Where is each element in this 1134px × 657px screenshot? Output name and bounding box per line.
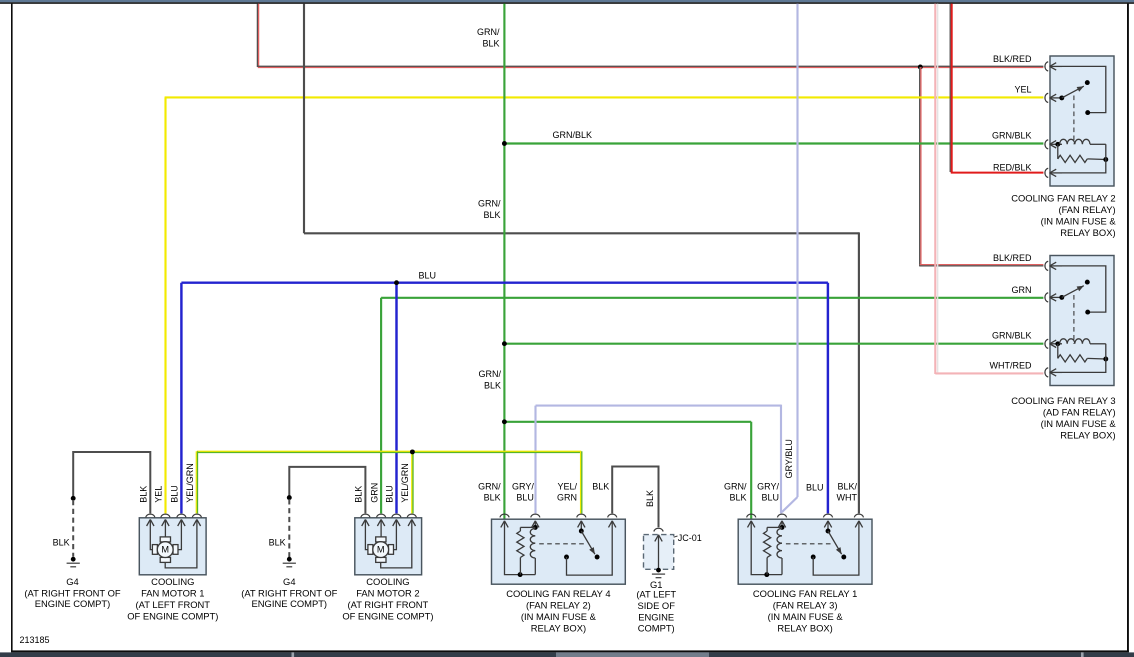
window top bar <box>0 0 1134 2</box>
junction dot BLU <box>394 280 399 285</box>
relay COOLING FAN RELAY 3 switch upper loop <box>1062 266 1106 315</box>
svg-text:WHT/RED: WHT/RED <box>990 361 1032 371</box>
relay COOLING FAN RELAY 1 actuation dashed link <box>786 543 832 545</box>
wire GRN/BLK branch to relay3 pin3 <box>504 343 1043 345</box>
svg-text:ENGINE: ENGINE <box>638 611 674 622</box>
relay COOLING FAN RELAY 2 pin2 connector <box>1045 93 1062 102</box>
svg-text:BLK: BLK <box>483 210 500 220</box>
label YEL rotated at motor pin x165.4 <box>154 486 164 503</box>
svg-text:JC-01: JC-01 <box>678 533 702 543</box>
relay COOLING FAN RELAY 2 switch upper loop <box>1062 66 1106 115</box>
wire GRN/BLK vertical trunk from top to relay4 pin1 <box>503 4 505 520</box>
wire WHT/RED horizontal to relay3 pin4 <box>935 372 1043 373</box>
svg-text:COOLING FAN RELAY 3: COOLING FAN RELAY 3 <box>1011 395 1115 406</box>
wire BLK/WHT vertical from top at x304 <box>303 4 305 234</box>
fan motor COOLING FAN MOTOR 2 pin1 connector <box>361 514 370 526</box>
svg-text:RED/BLK: RED/BLK <box>993 162 1032 172</box>
relay COOLING FAN RELAY 4 switch contact wire to pin4 <box>564 521 612 575</box>
svg-text:GRN: GRN <box>1012 285 1032 295</box>
fan motor COOLING FAN MOTOR 1 pin1 wire <box>150 520 152 550</box>
label BLK at relay4 pin4 <box>592 481 609 491</box>
junction dot GRN/BLK lower <box>502 419 507 424</box>
fan motor COOLING FAN MOTOR 2 pin2 wire <box>380 520 382 537</box>
svg-text:BLK: BLK <box>645 490 655 507</box>
wire WHT/RED vertical from top at x935 <box>935 4 937 374</box>
relay COOLING FAN RELAY 4 pin4 connector <box>608 514 617 527</box>
fan motor COOLING FAN MOTOR 1 armature circle <box>157 542 173 558</box>
label GRN/BLK at relay4 pin1 <box>478 481 501 502</box>
fan motor COOLING FAN MOTOR 1 pin2 wire <box>164 520 166 537</box>
svg-text:(AT RIGHT FRONT OF: (AT RIGHT FRONT OF <box>24 588 120 599</box>
svg-text:YEL: YEL <box>154 486 164 503</box>
relay COOLING FAN RELAY 3 coil <box>1055 339 1105 346</box>
svg-text:GRN/: GRN/ <box>724 481 747 491</box>
svg-text:(AT RIGHT FRONT: (AT RIGHT FRONT <box>348 599 429 610</box>
wire GRY/BLU vertical from top at x797 <box>796 4 798 497</box>
junction connector JC-01 box <box>644 535 674 570</box>
svg-text:(IN MAIN FUSE &: (IN MAIN FUSE & <box>1041 418 1117 429</box>
svg-text:YEL/GRN: YEL/GRN <box>400 463 410 503</box>
label YEL/GRN rotated at motor pin x411.8 <box>400 463 410 503</box>
svg-text:M: M <box>377 544 385 554</box>
diagram frame left border <box>11 4 13 652</box>
svg-text:(IN MAIN FUSE &: (IN MAIN FUSE & <box>1041 216 1117 227</box>
fan motor COOLING FAN MOTOR 2 armature circle <box>373 542 389 558</box>
svg-text:OF ENGINE COMPT): OF ENGINE COMPT) <box>127 610 218 621</box>
wire GRN vertical from fan motor2 pin2 <box>380 298 382 514</box>
svg-text:COOLING: COOLING <box>151 576 194 587</box>
svg-text:GRN/: GRN/ <box>477 27 500 37</box>
svg-text:BLU: BLU <box>806 482 824 492</box>
relay COOLING FAN RELAY 4 actuation dashed link <box>539 543 585 545</box>
wire GRY/BLU vertical to relay1 pin2 <box>780 405 782 514</box>
svg-text:GRN/BLK: GRN/BLK <box>992 131 1032 141</box>
caption ground G1 <box>636 579 676 634</box>
svg-text:GRN/BLK: GRN/BLK <box>992 331 1032 341</box>
svg-text:YEL/GRN: YEL/GRN <box>185 463 195 503</box>
wire BLK dashed to ground G4b <box>288 499 290 557</box>
svg-text:FAN MOTOR 1: FAN MOTOR 1 <box>141 587 204 598</box>
svg-text:BLK: BLK <box>592 481 609 491</box>
diagram frame bottom border <box>11 650 1129 652</box>
caption fan motor COOLING FAN MOTOR 2 <box>342 576 433 622</box>
relay COOLING FAN RELAY 3 pin2 connector <box>1045 293 1062 302</box>
caption ground G4a <box>24 576 120 609</box>
label GRN/BLK trunk lower (2 lines) <box>479 369 502 391</box>
label GRN/BLK mid-branch <box>553 130 593 140</box>
JC-01 internal arrow and wire <box>655 535 662 570</box>
wire BLU vertical from fan motor1 pin3 <box>180 283 182 514</box>
label BLK rotated at motor pin x365.4 <box>354 486 364 503</box>
relay COOLING FAN RELAY 3 coil right rail to pin4 <box>1062 344 1106 373</box>
relay COOLING FAN RELAY 4 resistor <box>517 527 536 574</box>
relay COOLING FAN RELAY 1 pin3 connector <box>823 514 832 527</box>
relay COOLING FAN RELAY 3 pin4 connector <box>1045 368 1062 377</box>
svg-text:M: M <box>161 544 169 554</box>
relay COOLING FAN RELAY 1 pin2 connector <box>777 514 786 527</box>
box relay COOLING FAN RELAY 2 <box>1050 56 1114 186</box>
svg-text:BLK/RED: BLK/RED <box>993 253 1032 263</box>
diagram frame top border <box>0 2 1134 4</box>
label GRY/BLU rotated <box>784 439 794 478</box>
wire BLK/RED horizontal to relay2 pin1 <box>258 66 1044 67</box>
svg-text:(FAN RELAY): (FAN RELAY) <box>1058 204 1115 215</box>
svg-text:BLK: BLK <box>139 486 149 503</box>
svg-text:COMPT): COMPT) <box>638 623 675 634</box>
relay COOLING FAN RELAY 1 switch contact wire to pin4 <box>811 521 859 575</box>
box relay COOLING FAN RELAY 3 <box>1050 256 1114 386</box>
svg-text:BLK/RED: BLK/RED <box>993 54 1032 64</box>
junction dot YEL/GRN <box>410 449 415 454</box>
wire YEL horizontal to relay2 pin2 <box>165 96 1044 98</box>
relay COOLING FAN RELAY 2 coil <box>1055 139 1105 146</box>
wire BLU vertical to fan motor2 pin3 <box>395 283 397 514</box>
relay COOLING FAN RELAY 1 switch blade <box>826 521 847 559</box>
relay COOLING FAN RELAY 3 pin3 connector <box>1045 339 1062 348</box>
label BLU at junction <box>419 271 437 281</box>
JC-01 connector arc <box>654 528 663 531</box>
junction dot GRN/BLK middle <box>502 341 507 346</box>
wire GRY/BLU horizontal relay4 to relay1 <box>536 405 782 407</box>
relay COOLING FAN RELAY 1 coil <box>777 528 782 574</box>
wire BLK/RED vertical from top at x258 <box>257 4 258 68</box>
label GRN/BLK at relay1 pin1 <box>724 481 747 502</box>
svg-text:RELAY BOX): RELAY BOX) <box>1060 227 1115 238</box>
label BLK/RED at relay2 pin1 <box>993 54 1032 64</box>
relay COOLING FAN RELAY 2 switch blade <box>1059 80 1089 100</box>
svg-text:BLU: BLU <box>516 493 534 503</box>
wire GRY/BLU vertical to relay4 pin2 <box>534 406 536 514</box>
bottom scrollbar thumb <box>556 652 709 657</box>
svg-text:(FAN RELAY 2): (FAN RELAY 2) <box>526 599 591 610</box>
fan motor COOLING FAN MOTOR 1 brushes <box>152 537 178 563</box>
box relay COOLING FAN RELAY 1 <box>738 519 872 584</box>
label BLU at relay1 pin3 <box>806 482 824 492</box>
svg-text:YEL: YEL <box>1014 85 1031 95</box>
wire RED/BLK horizontal to relay2 pin4 <box>951 172 1044 174</box>
box fan motor COOLING FAN MOTOR 2 <box>355 518 422 575</box>
label BLK at ground G4a <box>53 537 70 547</box>
svg-text:(FAN RELAY 3): (FAN RELAY 3) <box>773 599 838 610</box>
relay COOLING FAN RELAY 2 pin1 connector <box>1045 62 1062 71</box>
bottom scrollbar track <box>0 652 1134 657</box>
svg-text:GRN/: GRN/ <box>478 199 501 209</box>
svg-text:GRN/: GRN/ <box>478 481 501 491</box>
label RED/BLK at relay2 pin4 <box>993 162 1032 172</box>
wire YEL/GRN vertical from motor1 pin4 <box>196 451 197 513</box>
wire BLK motor1 ground run <box>73 452 150 513</box>
svg-text:WHT: WHT <box>837 493 858 503</box>
svg-text:GRN: GRN <box>369 483 379 503</box>
caption ground G4b <box>241 576 337 609</box>
label GRN/BLK at relay2 pin3 <box>992 131 1032 141</box>
svg-text:RELAY BOX): RELAY BOX) <box>1060 430 1115 441</box>
wire BLK/WHT vertical to relay1 pin4 <box>858 232 860 513</box>
label GRN at relay3 pin2 <box>1012 285 1032 295</box>
svg-text:ENGINE COMPT): ENGINE COMPT) <box>252 598 328 609</box>
fan motor COOLING FAN MOTOR 1 pin1 connector <box>146 514 155 526</box>
svg-text:FAN MOTOR 2: FAN MOTOR 2 <box>356 587 419 598</box>
label BLK/RED at relay3 pin1 <box>993 253 1032 263</box>
relay COOLING FAN RELAY 1 resistor <box>764 527 783 574</box>
relay COOLING FAN RELAY 3 switch blade <box>1059 280 1089 300</box>
label BLK/WHT at relay1 pin4 <box>837 481 858 502</box>
svg-text:BLK: BLK <box>484 381 501 391</box>
svg-text:(AT RIGHT FRONT OF: (AT RIGHT FRONT OF <box>241 588 337 599</box>
fan motor COOLING FAN MOTOR 2 pin2 connector <box>377 514 386 526</box>
svg-text:GRY/: GRY/ <box>512 481 534 491</box>
label BLK rotated at motor pin x150.3 <box>139 486 149 503</box>
svg-text:GRN/BLK: GRN/BLK <box>553 130 593 140</box>
bottom bar separator right <box>1081 652 1084 657</box>
label GRN/BLK trunk mid (2 lines) <box>478 199 501 221</box>
svg-text:BLK: BLK <box>354 486 364 503</box>
svg-text:RELAY BOX): RELAY BOX) <box>531 622 586 633</box>
junction dot BLK/RED at x920 <box>918 65 923 70</box>
label GRN/BLK at relay3 pin3 <box>992 331 1032 341</box>
label YEL/GRN at relay4 pin3 <box>557 481 577 502</box>
wire GRN horizontal to relay3 pin2 <box>381 297 1043 299</box>
svg-text:BLK: BLK <box>482 39 499 49</box>
wire RED/BLK vertical from top at x951 <box>950 4 952 173</box>
label YEL/GRN rotated at motor pin x196.9 <box>185 463 195 503</box>
svg-text:BLK: BLK <box>269 537 286 547</box>
label GRY/BLU at relay1 pin2 <box>757 481 779 502</box>
label BLU rotated at motor pin x181.4 <box>170 485 180 503</box>
wire BLK dashed to ground G4a <box>72 500 74 557</box>
svg-text:BLK/: BLK/ <box>837 481 857 491</box>
wire GRN/BLK vertical drop to relay1 pin1 <box>750 422 752 520</box>
relay COOLING FAN RELAY 2 coil right rail to pin4 <box>1062 144 1106 173</box>
caption fan motor COOLING FAN MOTOR 1 <box>127 576 218 622</box>
svg-text:GRN: GRN <box>557 493 577 503</box>
svg-text:BLU: BLU <box>385 485 395 503</box>
svg-text:BLK: BLK <box>729 493 746 503</box>
label BLU rotated at motor pin x396.4 <box>385 485 395 503</box>
svg-text:OF ENGINE COMPT): OF ENGINE COMPT) <box>342 610 433 621</box>
relay COOLING FAN RELAY 1 pin4 connector <box>854 514 863 527</box>
svg-text:G4: G4 <box>283 576 296 587</box>
label BLK rotated at JC-01 wire <box>645 490 655 507</box>
relay COOLING FAN RELAY 3 pin1 connector <box>1045 261 1062 270</box>
svg-text:RELAY BOX): RELAY BOX) <box>777 622 832 633</box>
svg-text:BLU: BLU <box>761 493 779 503</box>
wire YEL vertical from fan motor1 pin2 <box>164 97 166 513</box>
diagram frame right border <box>1127 4 1129 652</box>
svg-text:(IN MAIN FUSE &: (IN MAIN FUSE & <box>521 611 597 622</box>
svg-text:213185: 213185 <box>20 635 50 645</box>
label GRN/BLK top (2 lines) <box>477 27 500 49</box>
svg-text:(AT LEFT FRONT: (AT LEFT FRONT <box>136 599 211 610</box>
svg-text:GRN/: GRN/ <box>479 369 502 379</box>
ground G1 symbol <box>652 568 665 578</box>
svg-text:COOLING FAN RELAY 2: COOLING FAN RELAY 2 <box>1011 193 1115 204</box>
relay COOLING FAN RELAY 2 pin3 connector <box>1045 140 1062 149</box>
wire YEL/GRN horizontal <box>197 451 581 452</box>
label BLK at ground G4b <box>269 537 286 547</box>
svg-text:SIDE OF: SIDE OF <box>637 600 675 611</box>
wire YEL/GRN vertical to relay4 pin3 <box>581 451 582 513</box>
caption relay COOLING FAN RELAY 1 <box>753 588 857 634</box>
relay COOLING FAN RELAY 4 pin1 connector <box>500 514 509 527</box>
relay COOLING FAN RELAY 4 pin1 wire to coil bottom rail <box>505 521 536 577</box>
svg-text:BLU: BLU <box>419 271 437 281</box>
fan motor COOLING FAN MOTOR 2 brushes <box>368 537 394 563</box>
fan motor COOLING FAN MOTOR 1 pin3 wire <box>178 520 182 550</box>
wire GRN/BLK branch to relay2 pin3 <box>504 142 1043 144</box>
label WHT/RED at relay3 pin4 <box>990 361 1032 371</box>
junction dot GRN/BLK upper <box>502 141 507 146</box>
relay COOLING FAN RELAY 1 pin1 wire to coil bottom rail <box>751 521 782 577</box>
relay COOLING FAN RELAY 1 pin2 wire to coil top node <box>780 521 785 530</box>
relay COOLING FAN RELAY 3 actuation dashed link <box>1073 295 1075 344</box>
box relay COOLING FAN RELAY 4 <box>492 519 626 584</box>
relay COOLING FAN RELAY 2 resistor <box>1058 144 1108 162</box>
svg-text:ENGINE COMPT): ENGINE COMPT) <box>35 598 111 609</box>
svg-text:COOLING FAN RELAY 1: COOLING FAN RELAY 1 <box>753 588 857 599</box>
label GRN rotated at motor pin x381.1 <box>369 483 379 503</box>
relay COOLING FAN RELAY 4 pin2 connector <box>531 514 540 527</box>
svg-text:GRY/: GRY/ <box>757 481 779 491</box>
wire BLK/RED branch vertical to relay3 <box>920 67 921 266</box>
wire GRN/BLK branch horizontal to relay1 pin1 <box>504 421 751 423</box>
caption relay COOLING FAN RELAY 4 <box>506 588 610 634</box>
ground G4b symbol <box>283 557 296 567</box>
label diagram number 213185 <box>20 635 50 645</box>
relay COOLING FAN RELAY 4 pin3 connector <box>577 514 586 527</box>
svg-text:BLK: BLK <box>484 493 501 503</box>
fan motor COOLING FAN MOTOR 1 pin3 connector <box>177 514 186 526</box>
relay COOLING FAN RELAY 2 actuation dashed link <box>1073 96 1075 145</box>
svg-text:(IN MAIN FUSE &: (IN MAIN FUSE & <box>768 611 844 622</box>
label JC-01 <box>674 533 702 543</box>
ground G4a symbol <box>67 557 80 567</box>
fan motor COOLING FAN MOTOR 1 pin4 wire via motor bottom <box>165 520 197 568</box>
wire BLK/RED branch horizontal to relay3 pin1 <box>920 265 1044 266</box>
fan motor COOLING FAN MOTOR 1 pin4 connector <box>192 514 201 526</box>
fan motor COOLING FAN MOTOR 2 pin4 connector <box>407 514 416 526</box>
fan motor COOLING FAN MOTOR 2 pin4 wire via motor bottom <box>381 520 412 568</box>
caption relay COOLING FAN RELAY 3 <box>1011 395 1116 440</box>
fan motor COOLING FAN MOTOR 2 pin3 wire <box>393 520 396 550</box>
relay COOLING FAN RELAY 1 pin1 connector <box>747 514 756 527</box>
relay COOLING FAN RELAY 3 resistor <box>1058 344 1108 362</box>
svg-text:(AT LEFT: (AT LEFT <box>636 589 676 600</box>
label GRY/BLU at relay4 pin2 <box>512 481 534 502</box>
svg-text:COOLING FAN RELAY 4: COOLING FAN RELAY 4 <box>506 588 610 599</box>
junction dot BLK motor2 ground <box>287 495 292 500</box>
wire BLU vertical to relay1 pin3 <box>827 283 829 514</box>
fan motor COOLING FAN MOTOR 1 pin2 connector <box>161 514 170 526</box>
svg-text:BLU: BLU <box>170 485 180 503</box>
fan motor COOLING FAN MOTOR 2 pin3 connector <box>392 514 401 526</box>
relay COOLING FAN RELAY 2 pin4 connector <box>1045 168 1062 177</box>
svg-text:YEL/: YEL/ <box>557 481 577 491</box>
relay COOLING FAN RELAY 4 switch blade <box>579 521 600 559</box>
box fan motor COOLING FAN MOTOR 1 <box>139 518 206 575</box>
wire GRY/BLU diagonal into relay1 pin2 <box>782 497 798 512</box>
caption relay COOLING FAN RELAY 2 <box>1011 193 1116 238</box>
label YEL at relay2 pin2 <box>1014 85 1031 95</box>
wire BLK/WHT horizontal <box>304 232 859 234</box>
fan motor COOLING FAN MOTOR 2 pin1 wire <box>365 520 368 550</box>
svg-text:BLK: BLK <box>53 537 70 547</box>
svg-text:COOLING: COOLING <box>366 576 409 587</box>
relay COOLING FAN RELAY 4 coil <box>530 528 535 574</box>
svg-text:G4: G4 <box>66 576 79 587</box>
bottom bar separator left <box>292 652 295 657</box>
svg-text:(AD FAN RELAY): (AD FAN RELAY) <box>1043 407 1116 418</box>
wire YEL/GRN vertical to motor2 pin4 <box>412 451 413 513</box>
wire BLU horizontal <box>181 281 828 283</box>
svg-text:GRY/BLU: GRY/BLU <box>784 439 794 478</box>
wire BLK motor2 ground run <box>289 467 365 514</box>
junction dot BLK motor1 ground <box>71 496 76 501</box>
wire BLK relay4 pin4 to JC-01 <box>612 467 658 528</box>
relay COOLING FAN RELAY 4 pin2 wire to coil top node <box>533 521 538 530</box>
